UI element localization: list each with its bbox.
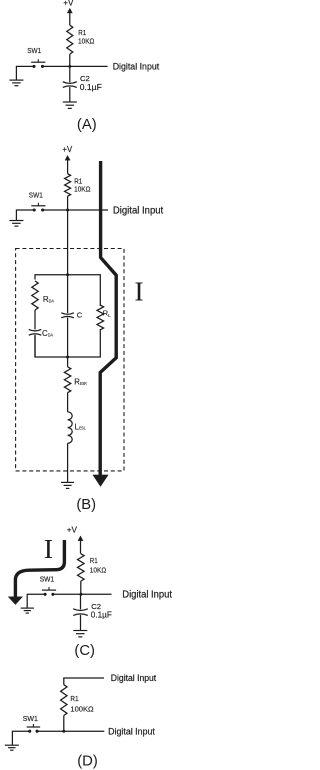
svg-text:I: I — [44, 534, 53, 565]
svg-text:R1: R1 — [70, 694, 78, 703]
svg-text:(A): (A) — [77, 117, 97, 133]
svg-text:Digital Input: Digital Input — [113, 62, 160, 73]
svg-text:Digital Input: Digital Input — [111, 672, 157, 683]
svg-text:Digital Input: Digital Input — [108, 727, 155, 738]
svg-text:C: C — [77, 310, 83, 319]
svg-text:100KΩ: 100KΩ — [70, 705, 94, 714]
svg-text:SW1: SW1 — [27, 46, 41, 55]
svg-text:0.1µF: 0.1µF — [91, 611, 112, 620]
svg-text:Digital Input: Digital Input — [113, 205, 163, 216]
svg-text:SW1: SW1 — [29, 190, 43, 199]
svg-text:10KΩ: 10KΩ — [74, 184, 91, 193]
svg-text:CDA: CDA — [42, 329, 54, 338]
svg-text:RDA: RDA — [43, 295, 55, 304]
svg-text:(D): (D) — [77, 753, 98, 769]
svg-text:Digital Input: Digital Input — [122, 590, 172, 601]
svg-text:I: I — [134, 276, 143, 307]
svg-text:+V: +V — [67, 525, 78, 534]
svg-text:SW1: SW1 — [40, 574, 54, 583]
svg-text:+V: +V — [62, 145, 73, 154]
svg-text:SW1: SW1 — [23, 714, 38, 723]
svg-text:(C): (C) — [74, 643, 95, 659]
svg-text:R1: R1 — [90, 556, 98, 565]
svg-text:RESR: RESR — [74, 377, 87, 386]
svg-text:(B): (B) — [76, 497, 96, 513]
svg-text:LESL: LESL — [75, 422, 87, 431]
svg-text:10KΩ: 10KΩ — [78, 36, 95, 45]
svg-text:10KΩ: 10KΩ — [90, 566, 107, 575]
svg-text:C2: C2 — [80, 74, 90, 83]
svg-text:0.1µF: 0.1µF — [80, 83, 102, 92]
svg-text:+V: +V — [63, 0, 74, 8]
svg-text:RL: RL — [103, 309, 111, 320]
